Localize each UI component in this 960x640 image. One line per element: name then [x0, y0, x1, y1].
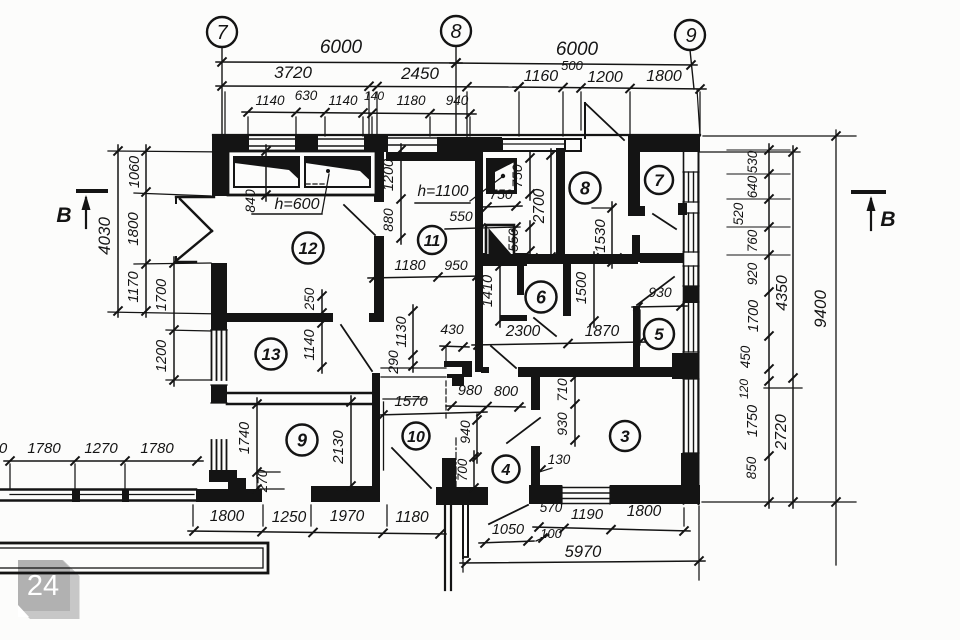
- window room 9 in left wall: [211, 440, 213, 470]
- window room 3 bottom wall: [562, 487, 610, 489]
- svg-text:1800: 1800: [627, 503, 662, 520]
- svg-text:850: 850: [744, 456, 759, 479]
- svg-text:700: 700: [455, 458, 470, 481]
- svg-text:270: 270: [255, 469, 270, 493]
- svg-text:1160: 1160: [524, 68, 559, 85]
- dim chain row3: [242, 112, 476, 114]
- svg-text:9400: 9400: [811, 290, 830, 328]
- svg-text:1180: 1180: [396, 93, 426, 108]
- room bubble 9: [287, 425, 318, 456]
- ventilation shaft square 1: [486, 158, 517, 194]
- svg-text:1060: 1060: [127, 156, 143, 188]
- svg-text:290: 290: [385, 350, 401, 375]
- svg-text:1700: 1700: [154, 279, 170, 311]
- right dim chain 9400: [835, 130, 837, 565]
- svg-text:1750: 1750: [745, 405, 761, 437]
- grid bubble 7: [207, 17, 237, 47]
- svg-text:760: 760: [745, 229, 760, 252]
- section marker B right: [853, 190, 884, 194]
- svg-text:2700: 2700: [531, 188, 548, 224]
- room bubble 6: [526, 282, 557, 313]
- svg-text:880: 880: [380, 208, 396, 232]
- svg-text:1740: 1740: [237, 422, 253, 454]
- svg-text:450: 450: [738, 345, 753, 368]
- svg-text:800: 800: [494, 384, 518, 400]
- wall rooms 12/13 divider: [227, 313, 333, 322]
- room bubble 8: [570, 173, 601, 204]
- door leaf bottom exit: [489, 505, 528, 524]
- door leaf room 3: [507, 418, 540, 443]
- grid line 8: [455, 46, 457, 134]
- dim 1410 room 6: [499, 260, 501, 327]
- svg-text:4030: 4030: [95, 217, 114, 255]
- dim 1530 room 8: [611, 202, 613, 268]
- svg-text:2300: 2300: [505, 323, 541, 340]
- svg-text:1180: 1180: [394, 258, 425, 274]
- door leaf room 5: [637, 277, 674, 305]
- svg-text:840: 840: [242, 189, 258, 213]
- svg-text:1870: 1870: [585, 323, 620, 340]
- bottom crossbar wall room 4: [436, 487, 488, 505]
- svg-text:1180: 1180: [395, 509, 429, 526]
- left exterior wall middle: [211, 263, 227, 330]
- svg-text:1250: 1250: [272, 509, 307, 526]
- window room 13 in left wall: [211, 330, 213, 380]
- svg-text:1140: 1140: [302, 329, 318, 360]
- dim 1130 290 hall: [412, 305, 414, 372]
- svg-text:1170: 1170: [126, 271, 142, 302]
- window lines above room 11: [388, 137, 437, 139]
- hall opening line above 1570: [383, 398, 427, 400]
- room bubble 12: [293, 233, 324, 264]
- svg-text:6000: 6000: [556, 39, 599, 60]
- dim 710 930 room 3: [574, 371, 576, 446]
- dim chain row2: [216, 86, 525, 87]
- svg-text:130: 130: [548, 452, 571, 467]
- svg-text:7: 7: [654, 171, 665, 190]
- svg-text:500: 500: [561, 58, 583, 73]
- left dim chain 4030: [117, 145, 119, 317]
- svg-text:7: 7: [216, 22, 228, 44]
- door leaf room 6: [534, 318, 556, 336]
- room bubble 10: [403, 423, 430, 450]
- ventilation shaft square 2: [486, 225, 514, 257]
- svg-text:1970: 1970: [330, 508, 365, 525]
- top wall room 7: [628, 136, 700, 152]
- room 13/9 right wall: [372, 373, 380, 487]
- svg-text:5: 5: [654, 325, 664, 344]
- svg-text:140: 140: [364, 89, 384, 103]
- neighbour wall lines bottom left: [0, 488, 196, 491]
- room bubble 5: [644, 319, 674, 349]
- left dim chain 1700 1200: [173, 257, 175, 386]
- svg-text:h=1100: h=1100: [417, 183, 468, 200]
- door leaf room 9/10: [392, 448, 431, 488]
- svg-text:550: 550: [505, 228, 521, 252]
- svg-text:920: 920: [745, 262, 760, 285]
- bottom wall left wing: [196, 489, 262, 502]
- window box 1 room 12: [234, 157, 299, 187]
- dim line 6000+6000: [216, 62, 462, 63]
- room 11 right wall / hall wall: [475, 152, 483, 372]
- svg-text:13: 13: [262, 345, 281, 364]
- left extension lines: [108, 151, 230, 152]
- room 5 left wall lower: [633, 306, 640, 372]
- room 3 left wall lower: [531, 446, 540, 488]
- extension lines from top chains: [368, 92, 370, 140]
- grid line 9: [690, 50, 694, 89]
- svg-text:1780: 1780: [27, 440, 61, 457]
- svg-text:1800: 1800: [125, 212, 142, 246]
- door leaf corridor to room 4: [491, 346, 516, 368]
- room 6 bottom wall stub: [500, 315, 527, 321]
- svg-text:1530: 1530: [592, 219, 609, 253]
- room 11 top wall: [386, 152, 475, 161]
- entrance door leaf: [584, 103, 586, 138]
- dim 750 under shaft 1: [481, 206, 522, 207]
- door leaf room 7: [653, 214, 676, 229]
- window sill band room 12: [228, 151, 376, 195]
- svg-text:1130: 1130: [394, 316, 410, 347]
- svg-text:1700: 1700: [746, 300, 762, 332]
- svg-text:1780: 1780: [140, 440, 174, 457]
- svg-text:B: B: [880, 208, 895, 231]
- dim 250 1140 room 13: [321, 290, 323, 319]
- svg-text:3720: 3720: [274, 63, 312, 82]
- svg-text:10: 10: [407, 429, 425, 446]
- balcony slab: [0, 543, 268, 573]
- svg-text:6: 6: [536, 287, 547, 307]
- ticks on corridor top wall: [529, 254, 537, 262]
- svg-text:120: 120: [737, 379, 751, 399]
- corridor top wall under rooms 8 and 7: [480, 254, 638, 264]
- svg-text:570: 570: [540, 500, 563, 515]
- svg-text:6000: 6000: [320, 37, 363, 58]
- dim 750 vertical shaft: [529, 152, 531, 200]
- svg-text:940: 940: [446, 93, 469, 108]
- svg-text:530: 530: [745, 150, 760, 173]
- room bubble 4: [493, 456, 520, 483]
- svg-text:1200: 1200: [154, 340, 170, 372]
- svg-text:1200: 1200: [587, 69, 623, 86]
- bottom wall room 9: [311, 486, 380, 502]
- room bubble 11: [418, 226, 446, 254]
- lower corridor walls: [444, 460, 446, 590]
- svg-text:1190: 1190: [571, 506, 604, 523]
- door leaf room 12: [344, 205, 375, 235]
- wall rooms 13/9 divider double line: [227, 392, 371, 395]
- bottom dim chain left 1800 1250 1970 1180: [188, 531, 446, 534]
- svg-text:430: 430: [440, 321, 464, 337]
- grid bubble 8: [441, 16, 471, 46]
- dim 430 hall: [440, 346, 469, 347]
- shaft room bottom wall: [477, 253, 527, 266]
- left exterior wall upper: [212, 137, 229, 196]
- corridor bottom wall: [518, 367, 672, 377]
- right exterior wall: [683, 136, 685, 504]
- sheet number badge 24: [18, 560, 80, 619]
- svg-text:1050: 1050: [492, 522, 524, 538]
- right extension line upper: [700, 151, 800, 153]
- left exterior wall lower: [211, 385, 227, 403]
- dim 2700 room 8: [550, 149, 552, 263]
- svg-text:12: 12: [299, 239, 318, 258]
- room 7 left wall: [628, 136, 640, 206]
- svg-text:520: 520: [731, 202, 746, 225]
- door leaf room 13: [341, 325, 372, 371]
- svg-text:2720: 2720: [773, 414, 790, 451]
- room bubble 3: [610, 421, 640, 451]
- svg-text:9: 9: [297, 430, 307, 450]
- svg-text:1140: 1140: [255, 93, 285, 108]
- room 8 left wall: [556, 148, 565, 263]
- svg-text:930: 930: [554, 412, 570, 436]
- svg-text:0: 0: [0, 440, 8, 457]
- dim 1180 950 corridor top: [368, 276, 483, 278]
- svg-text:1500: 1500: [574, 272, 590, 304]
- wall between rooms 12 and 11: [374, 152, 384, 202]
- svg-text:980: 980: [458, 383, 482, 399]
- svg-text:1800: 1800: [646, 68, 682, 85]
- right dim chain small values: [768, 144, 770, 508]
- window box 2 room 12: [305, 157, 370, 187]
- svg-text:1570: 1570: [394, 393, 428, 410]
- hall pier zigzag: [444, 361, 472, 367]
- svg-text:2130: 2130: [330, 430, 347, 465]
- right extension line top: [703, 135, 856, 137]
- svg-text:11: 11: [424, 233, 441, 250]
- room 4 lower-left wall block: [442, 458, 456, 490]
- dim 1500 lobby: [593, 252, 595, 327]
- svg-text:5970: 5970: [565, 543, 603, 561]
- wall room7/5 vertical: [632, 235, 640, 262]
- left dim chain 1060 1800 1170: [145, 145, 147, 317]
- svg-text:1140: 1140: [328, 93, 358, 108]
- dim 1570 room 10: [377, 412, 487, 415]
- bottom left dim 1780 1270 1780: [4, 460, 203, 462]
- dim 550 vertical shaft 2: [529, 221, 531, 257]
- svg-text:630: 630: [295, 88, 318, 103]
- room bubble 7: [645, 166, 673, 194]
- entry canopy: [502, 139, 565, 151]
- dim 1050 100 bottom: [479, 541, 534, 543]
- dim 980 800 hall 4: [446, 406, 525, 407]
- top wall room 11 head: [437, 137, 502, 152]
- bay window chevron: [176, 196, 214, 198]
- svg-text:550: 550: [449, 208, 473, 224]
- svg-text:B: B: [56, 204, 71, 227]
- svg-text:1200: 1200: [381, 159, 397, 191]
- room 6 left wall: [517, 261, 524, 295]
- svg-text:750: 750: [509, 164, 525, 188]
- svg-text:1800: 1800: [210, 508, 245, 525]
- dim 840 room 12: [265, 145, 267, 201]
- svg-text:930: 930: [648, 284, 672, 300]
- section marker B left: [78, 189, 106, 193]
- dim 1740 270 room 9: [256, 398, 258, 478]
- corridor left opening lines: [381, 367, 446, 369]
- dim 1200 880 wall 12/11: [400, 144, 402, 244]
- dim 940 700 hall 4: [476, 414, 478, 463]
- svg-text:710: 710: [554, 378, 570, 402]
- grid bubble 9: [675, 20, 705, 50]
- svg-text:9: 9: [685, 25, 696, 47]
- svg-text:4: 4: [501, 462, 511, 479]
- left wall bottom corner steps: [209, 470, 237, 482]
- svg-text:1410: 1410: [480, 275, 496, 307]
- svg-text:950: 950: [444, 257, 468, 273]
- svg-text:250: 250: [302, 287, 317, 311]
- right wall windows: [683, 172, 685, 202]
- dim 930 room 5 door: [632, 306, 687, 307]
- room 3 left wall upper: [531, 377, 540, 410]
- dim 2130 room 9: [350, 396, 352, 492]
- svg-text:24: 24: [27, 570, 59, 602]
- svg-text:940: 940: [457, 420, 473, 444]
- svg-text:8: 8: [450, 21, 461, 43]
- room 7 bottom wall: [640, 253, 683, 263]
- svg-text:640: 640: [745, 175, 760, 198]
- dim 5970 bottom: [460, 561, 705, 563]
- svg-text:h=600: h=600: [275, 196, 320, 213]
- grid line 7: [221, 47, 223, 137]
- svg-text:1270: 1270: [84, 440, 118, 457]
- room 6 right wall: [563, 261, 571, 316]
- entry canopy post: [565, 139, 581, 151]
- svg-text:2450: 2450: [400, 64, 439, 83]
- bottom wall rooms 4-3: [529, 485, 562, 504]
- svg-text:4350: 4350: [774, 275, 791, 311]
- bottom dim chain right 570 1190 1800: [533, 527, 690, 531]
- svg-text:8: 8: [580, 178, 590, 198]
- svg-text:3: 3: [620, 427, 630, 446]
- dim 2300 1870 corridor: [472, 342, 646, 345]
- top exterior wall with window piers room 12: [213, 134, 700, 136]
- right extension line mid: [764, 387, 802, 389]
- right dim chain 4350 2720: [792, 146, 794, 508]
- right extension line bottom: [702, 501, 856, 503]
- room bubble 13: [256, 339, 287, 370]
- thin opening line hall: [445, 347, 447, 361]
